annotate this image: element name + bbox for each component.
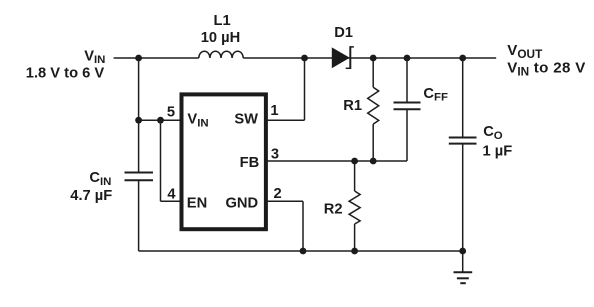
svg-text:10 µH: 10 µH bbox=[201, 30, 241, 46]
node pin5 junction EN tap bbox=[157, 117, 164, 124]
node CO top junction bbox=[459, 55, 466, 62]
wire top rail left (VIN to L1) bbox=[114, 57, 199, 59]
wire R1 bottom lead bbox=[372, 124, 374, 161]
capacitor CIN bbox=[125, 173, 154, 181]
wire pin3 FB horizontal bbox=[266, 160, 407, 162]
wire EN vertical bbox=[160, 120, 162, 201]
node ground junction bbox=[459, 248, 466, 255]
wire R2 bottom lead bbox=[354, 224, 356, 251]
node pin5 junction at VIN vertical bbox=[135, 117, 142, 124]
wire GND vertical to bottom rail bbox=[302, 201, 304, 251]
svg-text:SW: SW bbox=[234, 112, 258, 128]
wire top rail right (L1 to VOUT) bbox=[243, 57, 496, 59]
wire R2 top lead bbox=[354, 161, 356, 191]
op-amp U1 (IC body) bbox=[182, 94, 266, 229]
wire pin5 VIN horizontal bbox=[139, 119, 182, 121]
wire CFF bottom lead bbox=[406, 109, 408, 161]
wire CIN bottom to bottom rail bbox=[138, 180, 140, 251]
capacitor CFF bbox=[394, 103, 421, 110]
svg-text:4.7 µF: 4.7 µF bbox=[70, 188, 112, 204]
node R1 top junction bbox=[370, 55, 377, 62]
node FB-R1 junction bbox=[370, 158, 377, 165]
wire pin2 GND horizontal bbox=[266, 200, 303, 202]
svg-text:GND: GND bbox=[226, 196, 259, 212]
wire CO top lead bbox=[462, 58, 464, 138]
svg-text:5: 5 bbox=[167, 104, 175, 120]
wire R1 top lead bbox=[372, 58, 374, 87]
capacitor CO bbox=[449, 138, 477, 144]
wire ground stem bbox=[462, 251, 464, 272]
svg-text:D1: D1 bbox=[334, 25, 353, 41]
node VIN junction bbox=[135, 55, 142, 62]
resistor R1 bbox=[368, 87, 379, 124]
wire VIN vertical (rail down to CIN) bbox=[138, 58, 140, 173]
resistor R2 bbox=[349, 191, 360, 224]
inductor L1 bbox=[199, 51, 243, 58]
svg-text:1 µF: 1 µF bbox=[483, 143, 513, 159]
node SW junction on rail bbox=[301, 55, 308, 62]
node R2 bottom junction bbox=[351, 248, 358, 255]
svg-text:EN: EN bbox=[187, 196, 207, 212]
node CFF top junction bbox=[404, 55, 411, 62]
wire bottom rail bbox=[139, 250, 463, 252]
node FB-R2 junction bbox=[351, 158, 358, 165]
svg-text:4: 4 bbox=[167, 187, 176, 203]
wire pin4 EN horizontal bbox=[161, 200, 182, 202]
svg-text:1.8 V to 6 V: 1.8 V to 6 V bbox=[26, 66, 105, 82]
wire CO bottom lead bbox=[462, 144, 464, 251]
svg-text:L1: L1 bbox=[214, 13, 231, 29]
svg-text:2: 2 bbox=[274, 186, 282, 202]
diode D1 bbox=[332, 46, 354, 69]
svg-text:R1: R1 bbox=[343, 98, 362, 114]
svg-text:FB: FB bbox=[240, 155, 260, 171]
wire SW vertical to rail bbox=[304, 58, 306, 120]
wire pin1 SW horizontal bbox=[266, 119, 305, 121]
ground bbox=[454, 272, 473, 283]
wire CFF top lead bbox=[406, 58, 408, 103]
svg-text:R2: R2 bbox=[324, 202, 343, 218]
node GND pin junction bbox=[300, 248, 307, 255]
svg-text:1: 1 bbox=[270, 103, 278, 119]
